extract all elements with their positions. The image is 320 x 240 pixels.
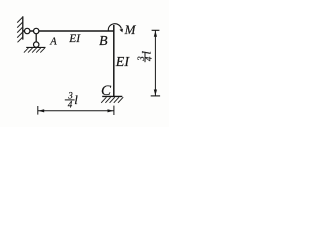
moment M arc: [108, 24, 121, 31]
column B-C with stub above B: [113, 25, 115, 96]
bottom label 3/4 l: [65, 91, 79, 110]
ground line at C (fixed support): [102, 95, 122, 97]
hinge circle on wall: [25, 28, 30, 33]
right dimension line: [154, 30, 156, 96]
right dimension bottom arrow: [154, 90, 157, 96]
vertical link under A: [35, 31, 37, 45]
svg-text:l: l: [74, 92, 78, 107]
bottom dimension line: [38, 110, 114, 112]
ground line under A link: [26, 46, 45, 48]
hinge circle at A: [34, 28, 39, 33]
member AB (beam): [23, 30, 115, 32]
svg-text:4: 4: [144, 56, 154, 61]
svg-text:l: l: [139, 51, 154, 55]
right dimension top tick: [152, 29, 160, 31]
moment M arrowhead: [120, 29, 123, 33]
wall at A: [22, 16, 24, 39]
wall hatching: [17, 17, 23, 42]
ground hatching at A: [24, 48, 45, 53]
hatching at C: [101, 97, 123, 103]
svg-text:M: M: [124, 22, 137, 37]
bottom dimension right tick: [113, 106, 115, 115]
hinge circle at ground link: [34, 42, 39, 47]
svg-text:4: 4: [68, 99, 73, 109]
bottom dimension right arrow: [108, 109, 114, 112]
svg-text:EI: EI: [115, 55, 131, 70]
right dimension top arrow: [154, 31, 157, 37]
svg-text:A: A: [49, 37, 57, 48]
bottom dimension left arrow: [38, 109, 44, 112]
right label 3/4 l (rotated): [136, 51, 154, 63]
bottom dimension left tick: [37, 106, 39, 115]
svg-text:EI: EI: [68, 33, 81, 45]
right dimension bottom tick: [151, 95, 160, 97]
svg-text:B: B: [99, 34, 108, 49]
